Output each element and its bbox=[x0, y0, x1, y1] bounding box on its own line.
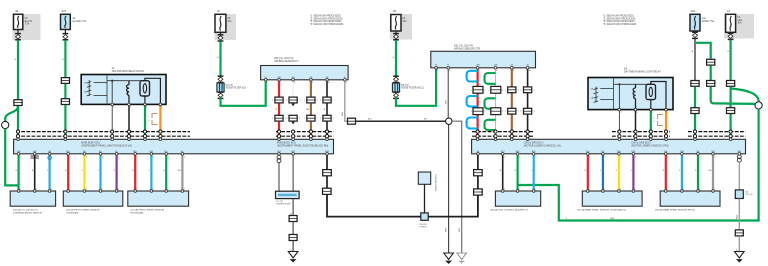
shield strip segment 2 bbox=[276, 131, 334, 133]
svg-text:2: 2 bbox=[317, 100, 318, 102]
shield drain below pin WB bbox=[738, 154, 740, 155]
rear sensor LH box bbox=[582, 191, 642, 206]
wire orange relay 1B to bus bbox=[665, 110, 667, 140]
wire green F5 to bus bbox=[694, 87, 696, 140]
splice dots at x=310.9 bbox=[309, 130, 312, 133]
svg-text:*1: SEDAN (W/ PRODUCED): *1: SEDAN (W/ PRODUCED) bbox=[310, 15, 341, 18]
svg-text:1A: 1A bbox=[727, 9, 730, 13]
relay block 1J pin connector bbox=[88, 80, 90, 96]
relay block 1J junction dot bbox=[111, 80, 113, 82]
svg-text:9: 9 bbox=[312, 82, 313, 84]
svg-text:BR: BR bbox=[306, 109, 309, 111]
wire red to speed sensor FR+ bbox=[67, 154, 69, 191]
relay block 1B tap wire bbox=[618, 84, 620, 109]
wire brown to bus bbox=[310, 122, 312, 140]
connector on F6 wire lower bbox=[727, 108, 735, 114]
svg-text:2: 2 bbox=[285, 118, 286, 120]
shield strip segment 4 bbox=[612, 131, 670, 133]
shield strip segment 1 bbox=[16, 131, 190, 133]
svg-text:1: 1 bbox=[102, 189, 103, 191]
wire black GND U-route left leg bbox=[326, 154, 328, 170]
connector on red wire row2 bbox=[275, 115, 283, 121]
splice dots at x=160.4 bbox=[159, 130, 162, 133]
ground G4 right bbox=[735, 252, 745, 263]
svg-text:D4 (*1): D4 (*1) bbox=[226, 85, 234, 87]
svg-text:2: 2 bbox=[635, 189, 636, 191]
svg-text:*1: SEDAN (W/ PRODUCED): *1: SEDAN (W/ PRODUCED) bbox=[603, 15, 634, 18]
svg-text:3: 3 bbox=[699, 189, 700, 191]
svg-text:*3: WAGON (W/ PRODUCED): *3: WAGON (W/ PRODUCED) bbox=[310, 20, 342, 23]
pin rings relay 1J bbox=[111, 103, 114, 106]
relay TAIL coil bbox=[127, 81, 129, 105]
wire gray ECU D30 pin E to junction bbox=[345, 80, 358, 121]
wire purple to rear sensor RL- bbox=[632, 154, 634, 191]
svg-text:W-B: W-B bbox=[446, 227, 448, 232]
svg-text:GRN: GRN bbox=[610, 218, 615, 220]
splice dots at x=477.6 bbox=[476, 130, 479, 133]
svg-text:1: 1 bbox=[489, 111, 490, 113]
ECU D30 body bbox=[261, 66, 349, 80]
svg-text:RH (SEDAN): RH (SEDAN) bbox=[131, 212, 144, 215]
wire green branch to left joint circle bbox=[5, 106, 18, 121]
speed sensor rear box bbox=[128, 191, 189, 206]
splice dots at x=293.1 bbox=[292, 130, 295, 133]
wire green shield weave bbox=[485, 73, 496, 130]
wire brown ECU D32 +SL bbox=[511, 68, 513, 87]
svg-text:2: 2 bbox=[502, 90, 503, 92]
svg-text:2: 2 bbox=[299, 118, 300, 120]
wire green branch to joint circle bbox=[711, 87, 755, 104]
wire black mid segment bbox=[326, 103, 328, 115]
connector on F6 wire bbox=[727, 81, 735, 87]
connector on right GND leg upper bbox=[474, 170, 483, 176]
fuse F4 bbox=[391, 15, 401, 32]
connector on brown wire row1 bbox=[307, 97, 315, 103]
svg-text:AIR BAG SENSOR CTR: AIR BAG SENSOR CTR bbox=[454, 47, 480, 50]
wire black to sensor FL bbox=[34, 154, 36, 191]
svg-text:D64 (A) REAR SPEED SENSOR RH (: D64 (A) REAR SPEED SENSOR RH (*2) bbox=[655, 209, 695, 212]
relay contact blade bbox=[143, 84, 146, 93]
rear sensor RH box bbox=[660, 191, 720, 206]
connector on F1 wire bbox=[14, 100, 22, 106]
svg-text:STEERING ANGLE SENSOR: STEERING ANGLE SENSOR bbox=[13, 212, 42, 215]
relay contact rail bbox=[129, 80, 145, 82]
splice dots at x=527.6 bbox=[526, 130, 529, 133]
pin rings left junction block top bbox=[17, 138, 20, 141]
svg-text:1: 1 bbox=[520, 111, 521, 113]
svg-text:1: 1 bbox=[304, 118, 305, 120]
wire white ECU D30 pin3 (white, drawn faint) bbox=[292, 80, 294, 97]
connector on pair2 row2 bbox=[491, 108, 501, 115]
junction bracket on orange wire right bbox=[658, 115, 664, 126]
svg-text:3: 3 bbox=[652, 112, 653, 114]
relay contact lower lead bbox=[144, 96, 146, 104]
wire gray to SW bbox=[712, 154, 714, 191]
wire black ECU D32 -SL bbox=[527, 68, 529, 87]
svg-text:A07: A07 bbox=[62, 9, 67, 13]
svg-text:2: 2 bbox=[317, 118, 318, 120]
svg-text:D45 (A) (*1), D46 (B) (*2): D45 (A) (*1), D46 (B) (*2) bbox=[13, 209, 38, 212]
svg-text:7: 7 bbox=[479, 70, 480, 72]
wire stub below F2 bbox=[64, 30, 66, 34]
svg-text:2: 2 bbox=[86, 189, 87, 191]
wire red ECU D32 +SR bbox=[477, 68, 479, 87]
svg-text:1E: 1E bbox=[15, 9, 18, 13]
wire green from circle down to sensor FL bbox=[5, 129, 18, 186]
svg-text:1: 1 bbox=[267, 82, 268, 84]
wire green right edge down and across bottom bbox=[518, 109, 759, 221]
wire green from F3 down bbox=[219, 41, 221, 77]
svg-text:4: 4 bbox=[504, 189, 505, 191]
svg-text:7.5A: 7.5A bbox=[25, 23, 30, 26]
wire green branch mid bbox=[710, 66, 712, 81]
svg-text:2: 2 bbox=[502, 111, 503, 113]
wire black horizontal to center junction bbox=[356, 120, 449, 122]
wire red ECU D30 pin2 bbox=[278, 80, 280, 97]
svg-text:1: 1 bbox=[287, 100, 288, 102]
svg-text:W-B: W-B bbox=[737, 214, 739, 219]
relay block 1B body bbox=[588, 78, 673, 110]
connector below F5 bbox=[692, 32, 698, 38]
joint circle E1 left bbox=[2, 121, 9, 128]
splice dots at x=65.4 bbox=[64, 130, 67, 133]
connector on pair2 row1 bbox=[491, 86, 501, 93]
connector on F5 wire bbox=[691, 81, 699, 87]
fuse F3 holder background bbox=[215, 14, 237, 40]
svg-text:2: 2 bbox=[285, 100, 286, 102]
wire purple to speed sensor FL- bbox=[115, 154, 117, 191]
fuse F4 holder background bbox=[390, 14, 412, 40]
relay contact box bbox=[140, 81, 150, 96]
svg-text:(INSTRUMENT PANEL JUNCTION BLO: (INSTRUMENT PANEL JUNCTION BLOCK LH) bbox=[81, 145, 132, 148]
svg-text:1: 1 bbox=[667, 189, 668, 191]
wire light-blue to speed sensor RR- bbox=[150, 154, 152, 191]
svg-text:2: 2 bbox=[118, 189, 119, 191]
wire light-blue to actuator bbox=[533, 154, 535, 191]
svg-text:ECU-B: ECU-B bbox=[25, 21, 33, 23]
pin rings left junction block bottom bbox=[17, 153, 20, 156]
wire black to bus bbox=[326, 122, 328, 140]
svg-text:*2: SEDAN (W/O PRODUCED): *2: SEDAN (W/O PRODUCED) bbox=[310, 17, 343, 20]
wire thin below pin SR2 bbox=[292, 154, 294, 191]
wire stub below F1 bbox=[17, 30, 19, 34]
wire green to WL bbox=[697, 154, 699, 191]
svg-text:(INSTRUMENT PANEL JUNCTION BLO: (INSTRUMENT PANEL JUNCTION BLOCK RH) bbox=[277, 145, 328, 148]
svg-text:5: 5 bbox=[130, 107, 131, 109]
wire black relay 1B coil to bus bbox=[635, 110, 637, 140]
svg-text:1: 1 bbox=[320, 100, 321, 102]
wire stub below F6 bbox=[730, 32, 732, 33]
svg-text:1: 1 bbox=[505, 111, 506, 113]
relay 1B contact blade bbox=[649, 87, 652, 96]
wire black from F5 bbox=[694, 31, 696, 32]
svg-text:D50 (A) FRONT SPEED SENSOR: D50 (A) FRONT SPEED SENSOR bbox=[66, 209, 100, 212]
wire black right GND leg mid bbox=[477, 176, 479, 189]
connector on black wire row2 bbox=[323, 115, 331, 121]
svg-text:C3 NOISE FILTER: C3 NOISE FILTER bbox=[434, 174, 436, 192]
wire gray WB lower bbox=[738, 199, 740, 230]
brake actuator box bbox=[495, 191, 540, 206]
wire green from F6 down bbox=[729, 40, 731, 81]
connector on branch wire bbox=[707, 59, 715, 65]
wire capacitor to splice bbox=[424, 184, 426, 213]
noise filter box on ground wires bbox=[276, 191, 300, 198]
svg-text:2: 2 bbox=[518, 90, 519, 92]
svg-text:4: 4 bbox=[346, 82, 347, 84]
svg-text:2: 2 bbox=[333, 100, 334, 102]
pin rings sensor boxes bbox=[17, 190, 20, 193]
wire gray WB to splice box bbox=[738, 162, 740, 190]
ECU D32 body bbox=[431, 51, 536, 68]
svg-text:*4: WAGON (W/O PRODUCED): *4: WAGON (W/O PRODUCED) bbox=[603, 23, 637, 26]
svg-text:2: 2 bbox=[333, 118, 334, 120]
connector on pair row1 bbox=[473, 86, 483, 93]
capacitor C1 body bbox=[418, 172, 430, 184]
relay block 1B internal divider bbox=[613, 78, 615, 110]
wire yellow to rear sensor RL+ bbox=[618, 154, 620, 191]
noise filter on F3 wire bbox=[218, 76, 224, 82]
svg-text:D5 (*2): D5 (*2) bbox=[401, 85, 409, 87]
connector on WB ground wire bbox=[735, 230, 743, 236]
splice box on GND wire bbox=[421, 213, 428, 220]
splice dots at x=619.4 bbox=[618, 130, 621, 133]
svg-text:4: 4 bbox=[449, 70, 450, 72]
connector on pair row2 bbox=[473, 108, 483, 115]
svg-text:1: 1 bbox=[667, 112, 668, 114]
svg-text:NOISE FILTER: NOISE FILTER bbox=[277, 204, 292, 206]
wire junction to lower ground bbox=[448, 124, 450, 253]
splice dots at x=495.5 bbox=[494, 130, 497, 133]
wire thin ground below filter bbox=[292, 199, 294, 216]
connector on black wire row1 bbox=[323, 97, 331, 103]
connector below F6 bbox=[728, 33, 734, 39]
svg-text:1: 1 bbox=[70, 189, 71, 191]
svg-text:1: 1 bbox=[168, 189, 169, 191]
svg-text:2: 2 bbox=[518, 111, 519, 113]
junction block right body bbox=[472, 139, 746, 154]
svg-text:1: 1 bbox=[471, 111, 472, 113]
svg-text:*4: WAGON (W/O PRODUCED): *4: WAGON (W/O PRODUCED) bbox=[310, 23, 344, 26]
shield strip segment 5 bbox=[688, 131, 746, 133]
wire green F3 to airbag ECU LH bbox=[221, 80, 266, 106]
relay block 1B pin connector bbox=[595, 87, 597, 103]
junction block left body bbox=[14, 139, 334, 154]
connector below F2 bbox=[63, 34, 69, 40]
relay block 1B squiggle links bbox=[600, 88, 613, 90]
svg-text:30A: 30A bbox=[737, 22, 742, 25]
svg-text:W-B: W-B bbox=[459, 227, 461, 232]
wire green F6 to bus bbox=[729, 87, 731, 140]
wire black right GND leg to bus bbox=[477, 154, 479, 170]
wire red to bus bbox=[278, 122, 280, 140]
wire black GND U-route bbox=[327, 194, 478, 216]
wire green to sensor FL connector bbox=[18, 154, 20, 191]
fuse F5 (DOME) bbox=[690, 14, 700, 31]
wire red to speed sensor RR+ bbox=[134, 154, 136, 191]
splice dots at x=511.8 bbox=[510, 130, 513, 133]
wire black GND left leg mid bbox=[326, 176, 328, 188]
svg-text:1: 1 bbox=[272, 118, 273, 120]
connector on white wire row2 bbox=[289, 115, 297, 121]
connector on brown wire row1 bbox=[508, 87, 516, 93]
connector on F2 wire lower bbox=[61, 99, 69, 105]
svg-text:4: 4 bbox=[566, 218, 567, 220]
svg-text:GR: GR bbox=[178, 170, 182, 172]
wire green F2 mid bbox=[64, 84, 66, 99]
svg-text:2: 2 bbox=[484, 90, 485, 92]
svg-text:2: 2 bbox=[20, 189, 21, 191]
wire green relay 1B to bus bbox=[650, 110, 652, 140]
svg-text:2: 2 bbox=[484, 111, 485, 113]
wire green branch right of F5 bbox=[695, 43, 711, 59]
svg-text:2: 2 bbox=[535, 189, 536, 191]
svg-text:LH (SEDAN): LH (SEDAN) bbox=[66, 212, 79, 215]
shield drain stub below pin SR1 bbox=[278, 154, 280, 156]
svg-text:2: 2 bbox=[534, 90, 535, 92]
svg-text:1: 1 bbox=[489, 90, 490, 92]
svg-text:D7 (*1): D7 (*1) bbox=[277, 201, 284, 203]
svg-text:NOISE FILTER (ACC): NOISE FILTER (ACC) bbox=[401, 87, 424, 90]
wire black ECU D30 pin5 bbox=[326, 80, 328, 97]
svg-text:3: 3 bbox=[51, 189, 52, 191]
wire junction to right ground bbox=[452, 121, 462, 253]
fuse F3 bbox=[215, 14, 226, 32]
connector on F2 wire upper bbox=[61, 78, 69, 84]
connector on white wire row1 bbox=[289, 97, 297, 103]
svg-text:D62 (A) REAR SPEED SENSOR LH (: D62 (A) REAR SPEED SENSOR LH (SEDAN) (*1… bbox=[577, 209, 627, 212]
connector on GND left leg upper bbox=[323, 170, 332, 176]
relay 1B contact upper lead bbox=[651, 82, 666, 110]
connector on F5 green lower bbox=[691, 108, 699, 114]
svg-text:9: 9 bbox=[513, 70, 514, 72]
svg-text:W-B: W-B bbox=[446, 99, 448, 104]
svg-text:TAIL AND MAIN RELAY BLOCK: TAIL AND MAIN RELAY BLOCK bbox=[112, 70, 145, 73]
connector on branch wire lower bbox=[707, 81, 715, 87]
wire thin to ground bbox=[292, 241, 294, 252]
svg-text:DAYTIME RUNNING LIGHT RELAY: DAYTIME RUNNING LIGHT RELAY bbox=[624, 71, 661, 74]
relay block 1B junction dot bbox=[618, 83, 620, 85]
svg-text:*2: SEDAN (W/O PRODUCED): *2: SEDAN (W/O PRODUCED) bbox=[603, 17, 636, 20]
wire green to actuator with branch bbox=[516, 154, 518, 191]
svg-text:1: 1 bbox=[520, 90, 521, 92]
speed sensor front LH box bbox=[10, 191, 55, 206]
relay 1B contact rail bbox=[636, 83, 651, 85]
svg-text:2: 2 bbox=[683, 189, 684, 191]
speed sensor front RH box bbox=[63, 191, 123, 206]
svg-text:2: 2 bbox=[184, 189, 185, 191]
svg-text:10: 10 bbox=[529, 70, 531, 72]
relay block 1J body bbox=[81, 75, 166, 105]
svg-text:2: 2 bbox=[620, 112, 621, 114]
wire orange relay to bus bbox=[159, 104, 161, 139]
wire thin ground mid bbox=[292, 222, 294, 235]
splice dots at x=730.6 bbox=[729, 130, 732, 133]
fuse F1 (ECU-B) bbox=[14, 14, 23, 29]
wire red to CAN L bbox=[665, 154, 667, 191]
connector on ground wire 1 bbox=[289, 216, 297, 222]
splice dots at x=327 bbox=[325, 130, 328, 133]
connector below F3 bbox=[218, 35, 224, 41]
wire relay tap to junction block bbox=[111, 104, 113, 139]
wire green relay to bus bbox=[144, 104, 146, 139]
relay 1B coil bbox=[633, 84, 635, 109]
splice dots at x=112.2 bbox=[111, 130, 114, 133]
svg-text:15A: 15A bbox=[402, 20, 407, 23]
svg-text:8: 8 bbox=[497, 70, 498, 72]
connector on black wire row1 bbox=[524, 87, 532, 93]
wire green from F2 down bbox=[64, 40, 66, 78]
relay block 1J squiggle links bbox=[94, 82, 108, 84]
svg-text:1: 1 bbox=[36, 189, 37, 191]
fuse F2 (GAUGE) bbox=[61, 14, 71, 29]
svg-text:1: 1 bbox=[471, 90, 472, 92]
wire green F2 to bus bbox=[64, 105, 66, 139]
svg-text:AIR BAG SENSOR LH: AIR BAG SENSOR LH bbox=[274, 60, 298, 63]
svg-text:A21: A21 bbox=[691, 9, 696, 13]
wire yellow to speed sensor FR- bbox=[83, 154, 85, 191]
svg-text:W-B: W-B bbox=[342, 111, 344, 116]
wire light-blue to sensor FL bbox=[48, 154, 50, 191]
splice dots at x=279 bbox=[277, 130, 280, 133]
splice dots at x=650.8 bbox=[649, 130, 652, 133]
svg-text:D60 (A) SKID CONTROL BUZZER (*: D60 (A) SKID CONTROL BUZZER (*1) bbox=[490, 209, 528, 212]
svg-text:1: 1 bbox=[272, 100, 273, 102]
connector below F4 bbox=[393, 34, 399, 40]
svg-text:GAUGE 7.5A: GAUGE 7.5A bbox=[73, 20, 87, 23]
wire green F4 to center ECU bbox=[396, 68, 436, 106]
wire gray WB to ground bbox=[738, 236, 740, 252]
splice dots at x=666 bbox=[664, 130, 667, 133]
connector below F1 bbox=[15, 34, 21, 40]
svg-text:J21 (*3): J21 (*3) bbox=[745, 194, 752, 196]
junction circle center bbox=[446, 118, 452, 124]
connector on brown wire row2 bbox=[508, 108, 516, 114]
wire thin ECU D32 ground pin bbox=[447, 68, 449, 121]
svg-text:GR: GR bbox=[708, 170, 712, 172]
svg-text:1: 1 bbox=[320, 118, 321, 120]
relay block 1J tap wire bbox=[111, 81, 113, 105]
svg-text:2: 2 bbox=[113, 107, 114, 109]
svg-text:1: 1 bbox=[519, 189, 520, 191]
svg-text:1B: 1B bbox=[624, 67, 627, 71]
ground G1 bbox=[288, 252, 298, 263]
connector on brown wire row2 bbox=[307, 115, 315, 121]
pin rings ECU D30 bbox=[264, 79, 267, 82]
pin rings right junction block top bbox=[476, 138, 479, 141]
pin rings relay 1B bbox=[618, 108, 621, 111]
svg-text:1: 1 bbox=[137, 189, 138, 191]
svg-text:7: 7 bbox=[280, 82, 281, 84]
svg-text:DOME 7.5A: DOME 7.5A bbox=[702, 20, 715, 23]
svg-text:2: 2 bbox=[534, 111, 535, 113]
connector on gray horizontal wire bbox=[348, 118, 356, 124]
wire green from F4 down bbox=[395, 40, 397, 77]
svg-text:3: 3 bbox=[146, 107, 147, 109]
noise filter on F4 wire bbox=[393, 76, 399, 82]
connector on red wire row1 bbox=[275, 97, 283, 103]
svg-text:2: 2 bbox=[604, 189, 605, 191]
wire blue to rear sensor RR- bbox=[602, 154, 604, 191]
wire thin ECU D32 -SR bbox=[495, 68, 497, 87]
splice dots at x=695 bbox=[693, 130, 696, 133]
wire blue shield weave bbox=[467, 71, 478, 129]
ground G3 bbox=[457, 253, 467, 264]
relay 1B contact lower lead bbox=[650, 100, 652, 110]
svg-text:2: 2 bbox=[299, 100, 300, 102]
junction bracket on orange wire bbox=[152, 114, 158, 125]
wire light-blue to CAN H bbox=[681, 154, 683, 191]
svg-text:1: 1 bbox=[437, 70, 438, 72]
